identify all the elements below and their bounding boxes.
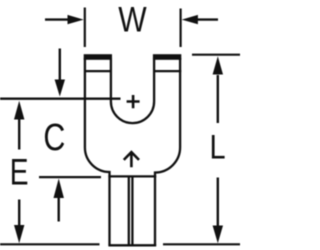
terminal outer profile left edge with fillet (85, 58, 110, 245)
terminal right prong top bar (153, 54, 181, 60)
W extension line right (180, 9, 182, 48)
C dimension lower arrow (pointing up at barrel line) (58, 197, 60, 222)
stud center mark plus (127, 95, 140, 108)
terminal barrel seam line right (131, 176, 133, 245)
centerline extension (stud center to left edge) (0, 97, 121, 99)
svg-text:W: W (118, 0, 147, 39)
W extension line left (84, 8, 86, 48)
bottom extension line right segment (163, 243, 240, 245)
svg-text:L: L (210, 127, 226, 166)
W dimension right arrow (196, 18, 218, 20)
L dimension upper arrow (pointing up at top line) (217, 75, 219, 123)
svg-text:E: E (10, 151, 29, 193)
L top extension line (192, 54, 240, 56)
W dimension left arrow (45, 18, 70, 20)
L dimension lower arrow (pointing down at bottom line) (217, 178, 219, 227)
barrel-top extension line (E/C reference) (39, 176, 101, 178)
terminal left prong fold line (84, 70, 112, 72)
terminal barrel bottom line (108, 244, 156, 246)
terminal right prong fold line (153, 70, 181, 72)
terminal fork slot (U shape) (111, 58, 154, 123)
bottom extension line left segment (0, 243, 100, 245)
C dimension upper arrow (pointing down at centerline) (59, 49, 61, 83)
E dimension upper arrow (pointing up at centerline) (18, 118, 20, 150)
svg-text:C: C (43, 117, 65, 159)
terminal barrel top line (108, 175, 156, 177)
stem direction arrow (open chevron) (124, 152, 139, 167)
terminal outer profile right edge with fillet (155, 58, 180, 245)
terminal barrel seam line left (128, 176, 130, 245)
terminal left prong top bar (84, 54, 112, 60)
E dimension lower arrow (pointing down at bottom line) (18, 200, 20, 228)
